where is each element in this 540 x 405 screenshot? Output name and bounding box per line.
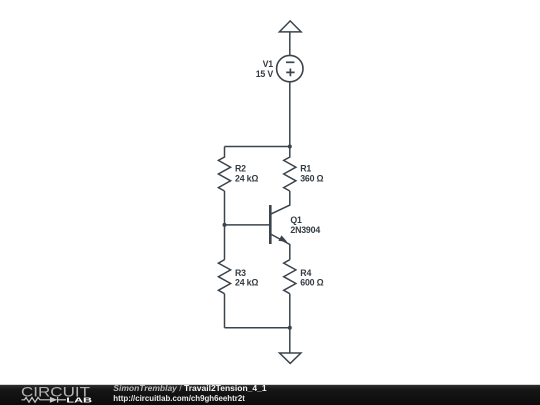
svg-text:15 V: 15 V	[256, 69, 274, 79]
svg-text:24 kΩ: 24 kΩ	[235, 278, 258, 288]
wire base	[225, 224, 271, 226]
svg-text:360 Ω: 360 Ω	[300, 173, 323, 183]
voltage source V1 circle	[277, 55, 303, 81]
svg-text:600 Ω: 600 Ω	[300, 278, 323, 288]
wire bottom horizontal	[225, 327, 290, 329]
svg-text:SimonTremblay / Travail2Tensio: SimonTremblay / Travail2Tension_4_1	[113, 383, 267, 393]
Q1 emitter	[270, 234, 290, 260]
wire flag to V1	[289, 32, 291, 56]
wire node to ground	[289, 328, 291, 353]
logo resistor-diode squiggle	[22, 397, 67, 403]
resistor R4	[284, 260, 296, 294]
svg-text:http://circuitlab.com/ch9gh6ee: http://circuitlab.com/ch9gh6eehtr2t	[113, 394, 245, 403]
Q1 emitter arrow	[278, 235, 287, 242]
wire R4 to bottom	[289, 294, 291, 328]
svg-text:R4: R4	[300, 268, 311, 278]
wire R3 to bottom	[224, 294, 226, 328]
node top junction dot	[288, 145, 292, 149]
V1 minus sign	[286, 61, 294, 63]
transistor Q1 base bar	[269, 205, 272, 244]
svg-text:R3: R3	[235, 268, 246, 278]
V1 plus sign	[286, 69, 294, 77]
node bottom junction dot	[288, 326, 292, 330]
ground symbol	[280, 353, 301, 363]
wire R1 to collector	[270, 191, 290, 214]
svg-text:2N3904: 2N3904	[290, 225, 320, 235]
svg-text:R2: R2	[235, 163, 246, 173]
node base junction dot	[223, 223, 227, 227]
wire V1 to top node	[289, 82, 291, 147]
svg-text:LAB: LAB	[66, 396, 93, 405]
resistor R3	[218, 260, 230, 294]
wire top horizontal	[225, 146, 290, 148]
svg-text:24 kΩ: 24 kΩ	[235, 173, 258, 183]
svg-text:R1: R1	[300, 163, 311, 173]
svg-text:V1: V1	[263, 59, 274, 69]
resistor R1	[284, 147, 296, 192]
svg-text:Q1: Q1	[290, 215, 302, 225]
power flag VCC triangle	[279, 21, 301, 32]
wire R2 to R3	[224, 191, 226, 260]
resistor R2	[218, 147, 230, 192]
